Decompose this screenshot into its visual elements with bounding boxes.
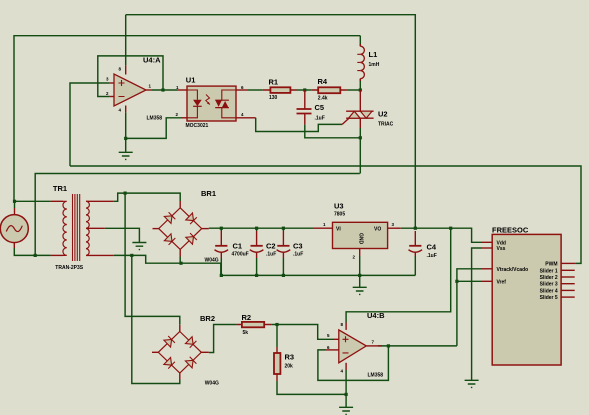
- ground below U4:B: [339, 407, 353, 414]
- wire Vref branch: [457, 280, 482, 282]
- capacitor C3: [277, 242, 304, 258]
- wire C3 leads: [282, 231, 284, 258]
- wire U4:A pin8 supply: [125, 15, 127, 65]
- resistor R1: [269, 78, 291, 102]
- svg-text:W04G: W04G: [205, 258, 219, 264]
- wire R4 to L1 node: [347, 89, 360, 91]
- node U3 GND junction: [358, 274, 361, 277]
- svg-text:Slider 3: Slider 3: [540, 282, 558, 288]
- capacitor C5: [297, 103, 325, 122]
- wire U3 VO lead: [388, 227, 401, 229]
- wire U4:A pin2 stub: [110, 96, 114, 98]
- wire U4:B pin4 to ground: [345, 370, 347, 407]
- svg-text:GND: GND: [358, 233, 364, 245]
- wire AC hot top border: [14, 36, 360, 202]
- svg-text:1mH: 1mH: [369, 62, 380, 68]
- wire C2 leads: [256, 231, 258, 258]
- wire FREESOC Slider4 stub: [561, 289, 575, 291]
- wire triac MT2 lead: [359, 90, 361, 111]
- wire FREESOC Vtrack stub: [482, 268, 493, 270]
- wire TR1 secondary mid lead: [86, 227, 105, 229]
- svg-text:U2: U2: [378, 110, 388, 119]
- wire +5V top rail: [126, 15, 416, 229]
- wire TR1 secondary top lead: [86, 200, 114, 202]
- svg-text:5k: 5k: [243, 330, 249, 336]
- ground below U3: [353, 287, 367, 294]
- wire U4:A pin8 stub: [125, 65, 127, 74]
- wire source bottom: [14, 248, 50, 255]
- svg-text:Slider 2: Slider 2: [540, 275, 558, 281]
- svg-text:20k: 20k: [285, 364, 294, 370]
- node C1 top junction: [220, 227, 223, 230]
- node U4:A output junction: [161, 88, 164, 91]
- svg-text:FREESOC: FREESOC: [492, 226, 529, 235]
- svg-text:TRAN-2P3S: TRAN-2P3S: [55, 265, 83, 271]
- svg-text:U4:A: U4:A: [143, 56, 161, 65]
- wire R4 leads: [311, 89, 347, 91]
- wire line A pin3 to PWM: [70, 166, 581, 263]
- wire U1 pin1 stub: [177, 89, 187, 91]
- op-amp U4:A: [106, 56, 162, 122]
- wire U3 GND lead: [359, 249, 361, 257]
- node secondary top junction: [124, 192, 127, 195]
- svg-text:2.4k: 2.4k: [318, 96, 328, 102]
- node U4:B output junction: [387, 344, 390, 347]
- wire C4 leads: [414, 231, 416, 256]
- resistor R2: [242, 313, 265, 336]
- wire R1 to R4: [297, 89, 312, 91]
- wire U1 pin2 to ground node: [126, 118, 181, 139]
- wire U4:A pin1 stub: [146, 89, 152, 91]
- svg-text:130: 130: [269, 95, 278, 101]
- svg-text:R1: R1: [269, 78, 279, 87]
- svg-text:LM358: LM358: [147, 116, 163, 122]
- svg-text:U1: U1: [186, 76, 196, 85]
- node C2 bottom junction: [255, 274, 258, 277]
- wire TR1 primary top lead: [51, 200, 63, 202]
- wire L1 bottom to triac: [359, 79, 361, 90]
- wire R3 leads: [276, 347, 278, 381]
- svg-text:C1: C1: [233, 242, 243, 251]
- wire VO to Vdd: [401, 228, 482, 242]
- wire BR1 bottom lead: [179, 249, 181, 256]
- svg-text:Vss: Vss: [497, 246, 506, 252]
- wire BR2 top lead: [179, 325, 181, 332]
- node U4:A ground junction: [124, 137, 127, 140]
- wire line B AC return: [35, 174, 360, 256]
- wire R3 bottom to ground node: [277, 381, 346, 394]
- node Vref junction: [455, 280, 458, 283]
- capacitor C2: [250, 242, 276, 258]
- svg-text:U3: U3: [334, 202, 344, 211]
- wire triac MT1 down: [359, 128, 361, 174]
- wire FREESOC Slider5 stub: [561, 296, 575, 298]
- inductor L1: [357, 46, 379, 78]
- wire U4:A pin4 stub: [125, 106, 127, 113]
- svg-text:R2: R2: [242, 313, 252, 322]
- wire secondary top to BR1: [114, 193, 181, 201]
- wire BR1 right lead: [202, 228, 209, 230]
- wire DC plus rail: [209, 227, 314, 229]
- wire bottom DC rail: [221, 274, 415, 276]
- svg-text:TR1: TR1: [53, 184, 67, 193]
- svg-text:TRIAC: TRIAC: [378, 122, 394, 128]
- optocoupler U1: [176, 76, 245, 129]
- svg-text:Vref: Vref: [497, 279, 507, 285]
- wire BR2 plus to R2: [209, 325, 237, 353]
- svg-text:LM358: LM358: [368, 373, 384, 379]
- svg-text:BR2: BR2: [200, 314, 215, 323]
- svg-text:.1uF: .1uF: [315, 116, 325, 122]
- node C3 top junction: [282, 227, 285, 230]
- wire Vss to ground: [472, 248, 482, 380]
- wire R2 to R3 node and pin5: [271, 325, 333, 340]
- svg-text:Slider 1: Slider 1: [540, 268, 558, 274]
- svg-text:C3: C3: [293, 242, 303, 251]
- wire source top: [14, 201, 16, 208]
- wire FREESOC Slider2 stub: [561, 276, 575, 278]
- svg-text:PWM: PWM: [545, 261, 557, 267]
- wire U4:B pin4 stub: [345, 363, 347, 370]
- wire source leads: [13, 208, 15, 248]
- wire U1 pin4 stub: [236, 117, 256, 119]
- wire triac MT1 lead: [359, 118, 361, 128]
- svg-text:VO: VO: [374, 227, 381, 233]
- node C3 bottom junction: [282, 274, 285, 277]
- wire U4:B pin7 stub: [366, 345, 382, 347]
- wire BR1 bottom stub join: [179, 257, 181, 264]
- wire U4:A feedback loop: [98, 56, 163, 97]
- wire vertical secondary bottom to BR2: [132, 255, 180, 383]
- svg-text:.1uF: .1uF: [427, 253, 437, 259]
- wire BR2 bottom lead: [179, 373, 181, 379]
- wire vertical secondary top to BR2: [125, 193, 180, 325]
- wire R2 leads: [237, 324, 272, 326]
- svg-text:L1: L1: [369, 50, 378, 59]
- AC source: [0, 215, 28, 243]
- wire primary top: [15, 200, 51, 202]
- node BR1 bottom junction: [179, 262, 182, 265]
- wire U4:B pin6 stub: [326, 349, 339, 351]
- wire BR1 top lead: [179, 201, 181, 208]
- wire FREESOC PWM stub: [561, 262, 575, 264]
- node secondary bottom junction: [130, 254, 133, 257]
- bridge BR1: [159, 189, 219, 264]
- wire R3 top: [276, 325, 278, 348]
- wire FREESOC Vss stub: [482, 247, 493, 249]
- wire C5 leads: [304, 90, 306, 125]
- node L1 R4 junction: [359, 88, 362, 91]
- wire U1 pin4 to triac gate: [256, 118, 343, 132]
- node C4 top junction: [414, 227, 417, 230]
- node source top junction: [13, 200, 16, 203]
- node MT1 C5 junction: [359, 136, 362, 139]
- wire FREESOC Slider3 stub: [561, 283, 575, 285]
- wire R1 leads: [263, 89, 297, 91]
- wire U4:B feedback to pin6: [318, 346, 389, 381]
- op-amp U4:B: [327, 311, 385, 379]
- svg-text:Slider 5: Slider 5: [540, 295, 558, 301]
- bridge BR2: [158, 314, 219, 387]
- svg-text:4700uF: 4700uF: [232, 252, 249, 258]
- wire U3 ground symbol stem: [359, 275, 361, 287]
- svg-text:BR1: BR1: [201, 189, 216, 198]
- wire secondary bottom: [114, 255, 221, 275]
- wire U1 pin2 stub: [181, 117, 187, 119]
- wire FREESOC Vref stub: [482, 280, 493, 282]
- svg-text:Slider 4: Slider 4: [540, 288, 558, 294]
- wire L1 top: [359, 36, 361, 47]
- wire FREESOC Slider1 stub: [561, 269, 575, 271]
- wire C1 leads green: [220, 228, 222, 275]
- node R3 top junction: [275, 323, 278, 326]
- node C5 top junction: [303, 88, 306, 91]
- wire C2 leads green: [256, 228, 258, 275]
- wire C3 leads green: [282, 228, 284, 275]
- wire BR1 left stub: [153, 228, 159, 230]
- transformer TR1: [53, 184, 89, 271]
- wire TR1 secondary bottom lead: [86, 254, 114, 256]
- wire TR1 primary bottom lead: [51, 254, 63, 256]
- wire U4:A output to U1: [152, 89, 177, 91]
- wire U3 GND to rail: [359, 256, 361, 275]
- wire C5 bottom to MT1: [305, 125, 360, 138]
- svg-text:R4: R4: [318, 77, 328, 86]
- ground below U4:A: [119, 152, 133, 159]
- resistor R4: [318, 77, 341, 102]
- wire U4:B output to Vtrack vertical: [378, 345, 457, 347]
- svg-text:.1uF: .1uF: [266, 252, 276, 258]
- svg-text:U4:B: U4:B: [367, 311, 385, 320]
- wire U3 VI lead: [314, 227, 333, 229]
- svg-text:Vtrack/Vcado: Vtrack/Vcado: [497, 267, 529, 273]
- ground transformer mid tap: [132, 243, 146, 250]
- wire U1 pin6 stub: [236, 89, 248, 91]
- wire triac gate lead: [342, 118, 349, 124]
- MCU FREESOC: [492, 226, 561, 366]
- svg-text:W04G: W04G: [205, 381, 219, 387]
- svg-text:C4: C4: [427, 243, 437, 252]
- wire U4:B pin5 stub: [333, 338, 339, 340]
- wire U1 pin6 to R1: [248, 89, 263, 91]
- wire BR2 right lead: [201, 351, 209, 353]
- svg-text:.1uF: .1uF: [293, 252, 303, 258]
- triac U2: [346, 110, 394, 128]
- node +5V branch junction: [449, 227, 452, 230]
- capacitor C1: [215, 242, 249, 258]
- node C1 bottom junction: [220, 274, 223, 277]
- svg-text:C5: C5: [315, 103, 325, 112]
- wire U4:A pin3 input: [70, 83, 110, 166]
- wire BR2 left stub: [152, 351, 158, 353]
- wire C1 leads: [220, 231, 222, 258]
- svg-text:7805: 7805: [334, 212, 345, 218]
- capacitor C4: [409, 243, 437, 260]
- ground FREESOC Vss: [465, 380, 479, 387]
- wire FREESOC Vdd stub: [482, 241, 493, 243]
- wire Vtrack branch: [457, 269, 482, 346]
- wire mid tap to ground: [105, 228, 140, 242]
- node R3 ground junction: [345, 393, 348, 396]
- svg-text:R3: R3: [285, 353, 295, 362]
- wire U4:A pin3 stub: [110, 82, 114, 84]
- svg-text:MOC3021: MOC3021: [186, 123, 209, 129]
- wire U4:A pin4 to ground: [125, 112, 127, 152]
- wire +5V branch to U4:B pin8: [346, 228, 451, 322]
- node C2 top junction: [255, 227, 258, 230]
- regulator U3: [323, 202, 395, 260]
- wire L1 leads: [359, 44, 361, 81]
- wire C4 bottom: [414, 256, 416, 275]
- svg-text:VI: VI: [336, 227, 341, 233]
- wire U4:B pin8 stub: [345, 323, 347, 330]
- resistor R3: [274, 353, 294, 375]
- node source bottom junction: [34, 254, 37, 257]
- svg-text:C2: C2: [266, 242, 276, 251]
